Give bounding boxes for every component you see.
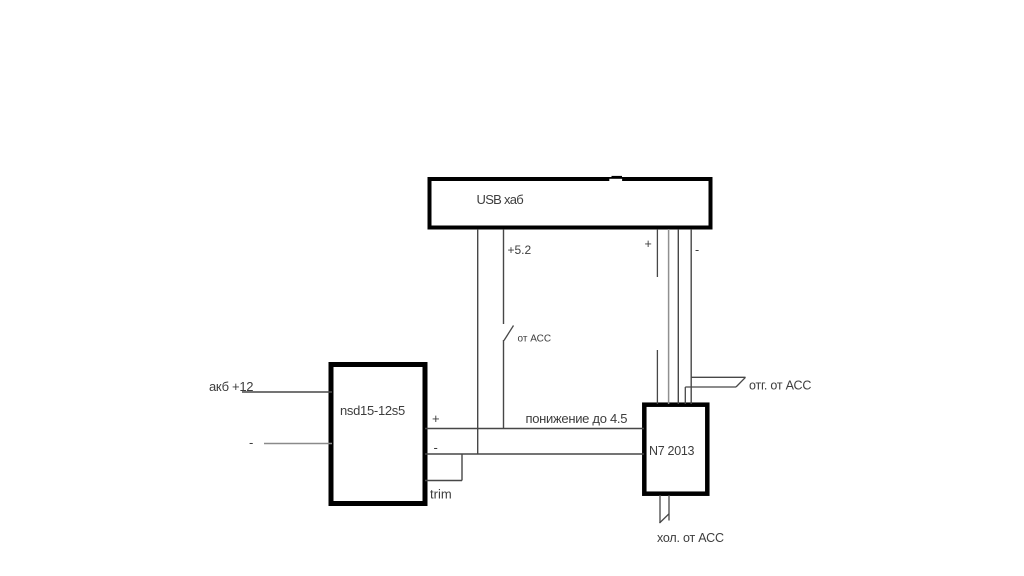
svg-text:от АСС: от АСС — [518, 334, 552, 345]
svg-text:хол. от АСС: хол. от АСС — [657, 531, 724, 545]
wire: battery +12 input — [242, 391, 332, 393]
svg-text:-: - — [695, 243, 699, 257]
wire: plus wire lower segment — [656, 350, 658, 404]
connector flag: diagonal — [736, 377, 746, 387]
wire: flag stub to N7 — [684, 387, 686, 404]
svg-text:USB хаб: USB хаб — [477, 192, 524, 207]
wire: trim jumper horizontal — [425, 480, 462, 482]
wire: battery minus input — [264, 443, 332, 445]
wire: hub +5.2 drop upper (to switch) — [503, 229, 505, 324]
svg-text:N7 2013: N7 2013 — [649, 444, 695, 458]
block U1: USB hub — [430, 176, 711, 228]
wire: bottom leads slash — [660, 514, 669, 523]
wire: minus bus — [425, 453, 644, 455]
wire: minus wire — [690, 229, 692, 404]
svg-text:+5.2: +5.2 — [508, 243, 532, 257]
wire: bundle wire A — [668, 229, 670, 404]
svg-text:отг. от АСС: отг. от АСС — [749, 379, 811, 393]
svg-text:trim: trim — [430, 487, 452, 502]
svg-text:-: - — [434, 440, 438, 455]
svg-text:-: - — [249, 435, 253, 450]
svg-text:nsd15-12s5: nsd15-12s5 — [340, 403, 405, 418]
wire: hub +5.2 drop lower — [503, 340, 505, 429]
block PSU: nsd15-12s5 — [331, 365, 425, 504]
wire: +4.5 bus (понижение до 4.5) — [425, 428, 644, 430]
wire: plus wire upper segment — [656, 229, 658, 277]
svg-text:+: + — [645, 237, 652, 251]
svg-text:акб +12: акб +12 — [209, 379, 253, 394]
block N7 2013 — [644, 405, 707, 494]
svg-text:понижение до 4.5: понижение до 4.5 — [526, 411, 628, 426]
switch: от АСС — [504, 326, 514, 341]
connector flag: top line — [691, 376, 745, 378]
connector flag: bottom line — [685, 386, 736, 388]
wire: N7 bottom left lead — [659, 495, 661, 523]
wire: N7 bottom right lead — [668, 495, 670, 521]
svg-text:+: + — [432, 411, 440, 426]
wire: bundle wire B — [677, 229, 679, 404]
wire: hub ground return drop — [477, 229, 479, 454]
wire: trim jumper vertical — [461, 454, 463, 481]
